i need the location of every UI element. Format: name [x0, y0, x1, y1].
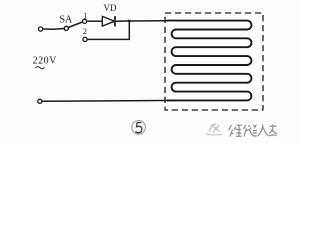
svg-text:VD: VD — [104, 3, 117, 13]
wire: diode cathode to heater box (top lead) — [116, 20, 177, 23]
wire: bypass from node 2 up to cathode line — [87, 21, 129, 39]
wire: bottom terminal to heater box (bottom lead) — [42, 99, 176, 102]
heater enclosure (dashed box) — [165, 13, 263, 110]
AC tilde symbol — [35, 67, 44, 69]
switch SA pivot node — [64, 26, 68, 30]
svg-text:1: 1 — [83, 11, 87, 21]
svg-text:2: 2 — [83, 26, 87, 36]
switch SA blade — [68, 22, 83, 28]
watermark logo — [206, 124, 222, 135]
watermark text (CJK simulated strokes) — [229, 125, 278, 137]
figure number 5 (circled) — [132, 121, 146, 135]
heating element (serpentine resistance wire) — [167, 21, 251, 101]
svg-text:SA: SA — [60, 15, 74, 26]
wire: node 1 to diode anode — [87, 20, 103, 22]
node: left AC input terminal — [39, 27, 43, 31]
node 2 (switch throw 2) — [83, 37, 87, 41]
node 1 (switch throw 1) — [83, 19, 87, 23]
junction: bypass joins top wire — [128, 20, 131, 23]
wire: left terminal to switch pivot — [43, 28, 64, 31]
diode VD — [102, 16, 115, 26]
node: bottom AC input terminal — [38, 99, 42, 103]
svg-text:220V: 220V — [33, 55, 58, 66]
